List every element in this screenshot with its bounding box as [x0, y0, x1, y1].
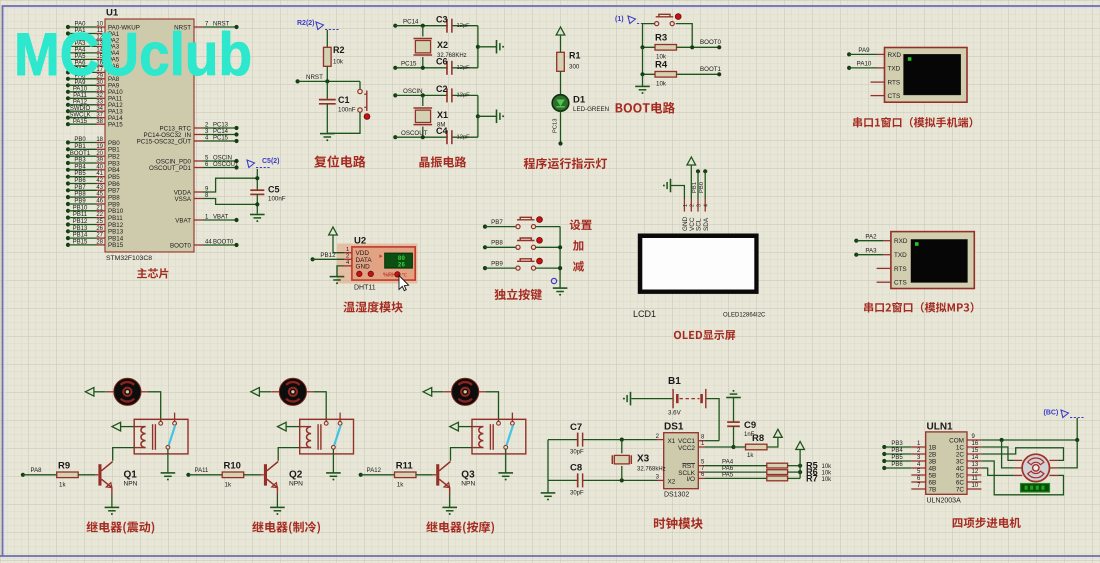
svg-text:NPN: NPN	[461, 481, 475, 488]
svg-text:C4: C4	[436, 126, 448, 136]
ground left of B1	[630, 392, 632, 406]
svg-text:PA11: PA11	[73, 93, 87, 99]
svg-text:2: 2	[346, 254, 349, 260]
wire coil to transistor collector	[278, 448, 300, 461]
svg-text:27: 27	[96, 233, 103, 239]
svg-text:PC15: PC15	[401, 61, 417, 68]
svg-text:BOOT0: BOOT0	[170, 242, 192, 249]
svg-text:PB4: PB4	[891, 448, 903, 454]
svg-text:TXD: TXD	[894, 252, 907, 259]
probe marker C5(2)	[247, 158, 280, 168]
wire PB1 to SCL	[692, 169, 700, 199]
label 串口1窗口（模拟手机端）	[853, 117, 972, 128]
motor for 继电器(震动)	[106, 378, 148, 405]
svg-text:C5(2): C5(2)	[262, 158, 280, 165]
U1 pin PA0-WKUP (10)	[66, 22, 140, 32]
RTS stub	[871, 81, 885, 83]
wire left vertical clock	[547, 440, 549, 493]
svg-text:PB7: PB7	[491, 219, 503, 226]
DS1302 I/O wire PA5	[698, 471, 767, 478]
svg-text:NPN: NPN	[124, 481, 138, 488]
svg-text:30pF: 30pF	[570, 450, 584, 456]
wire VCC1 to battery	[698, 435, 719, 441]
U1 pin PB6 (42)	[66, 178, 120, 188]
svg-text:26: 26	[96, 226, 103, 232]
svg-text:OSCOUT: OSCOUT	[213, 162, 239, 168]
wire 1C to motor left-top	[981, 447, 1014, 460]
resistor R11 1k	[395, 460, 437, 488]
U1 pin PA8 (29)	[66, 73, 120, 83]
U1 pin PA10 (31)	[66, 86, 123, 96]
svg-text:300: 300	[569, 64, 580, 71]
node PA8	[21, 468, 57, 477]
virtual terminal serial window 1	[885, 48, 968, 103]
wire probe to R2	[326, 30, 328, 47]
svg-text:40: 40	[96, 164, 103, 170]
svg-text:3C: 3C	[956, 458, 965, 465]
svg-text:7B: 7B	[929, 486, 937, 493]
resistor R10 1k	[222, 460, 264, 488]
svg-text:Q1: Q1	[124, 470, 138, 481]
power arrow left of motor	[251, 388, 271, 397]
label 设置	[570, 219, 592, 230]
stepper digital display	[1021, 484, 1050, 493]
svg-text:R7: R7	[806, 473, 818, 483]
svg-text:(1): (1)	[615, 16, 624, 23]
svg-text:D1: D1	[573, 95, 586, 106]
svg-text:46: 46	[96, 199, 103, 205]
U1 pin PB5 (41)	[66, 171, 120, 181]
node PA12	[359, 468, 395, 477]
svg-text:22: 22	[96, 212, 103, 218]
ground below relay	[326, 472, 341, 474]
U1 pin PA7 (17)	[66, 67, 120, 77]
U1 pin OSCIN_PD0 (5)	[156, 155, 239, 165]
chip U1 STM32F103C8 body	[105, 8, 194, 263]
transistor Q3 NPN	[436, 462, 475, 508]
chip U2 DHT11 body	[352, 236, 415, 292]
U1 pin VSSA (8) wire to C5	[174, 193, 257, 205]
resistor R8 1k	[746, 433, 778, 459]
svg-text:SDA: SDA	[703, 217, 710, 231]
U1 pin BOOT0 (44)	[170, 239, 239, 249]
svg-text:12: 12	[972, 469, 979, 475]
CTS stub	[871, 95, 885, 97]
U1 pin PA14 (37)	[66, 112, 123, 122]
ULN1 pin 3B (3)	[882, 455, 936, 466]
label 继电器(震动)	[86, 521, 154, 534]
DS1302 RST wire PA4	[698, 459, 767, 466]
ground below C1	[320, 133, 335, 135]
power arrow for OLED VCC	[687, 157, 696, 199]
svg-text:RTS: RTS	[888, 80, 901, 87]
svg-text:7C: 7C	[956, 486, 965, 493]
ULN1 pin 2C (15)	[956, 448, 982, 458]
motor for 继电器(制冷)	[272, 378, 314, 405]
svg-text:PC14: PC14	[213, 129, 229, 135]
chip ULN1 ULN2003A body	[926, 422, 967, 505]
U1 pin NRST (7)	[174, 21, 238, 31]
key button PB8	[483, 237, 560, 249]
resistor R4 10k	[640, 47, 721, 87]
display LCD1 OLED12864I2C	[633, 234, 766, 320]
svg-text:CTS: CTS	[888, 93, 901, 100]
svg-text:C2: C2	[436, 84, 448, 94]
U1 pin PB10 (21)	[66, 205, 124, 215]
svg-text:R2(2): R2(2)	[297, 20, 315, 27]
wire PA2 to RXD	[854, 233, 891, 242]
resistor R2 10k	[324, 45, 345, 66]
wire relay contact to ground	[167, 449, 169, 472]
U1 pin PB2 (20)	[66, 151, 120, 161]
svg-text:1: 1	[683, 204, 689, 207]
capacitor C2 12pF	[436, 84, 470, 102]
boot button	[643, 14, 693, 48]
capacitor C7 30pF	[548, 422, 664, 456]
svg-text:I/O: I/O	[686, 476, 695, 483]
svg-text:PB10: PB10	[73, 205, 88, 211]
svg-text:10k: 10k	[822, 470, 833, 476]
svg-text:44: 44	[205, 239, 212, 245]
U2 pin 1 VDD stub	[344, 247, 352, 253]
U1 pin PB8 (45)	[66, 192, 120, 202]
ground right of X2	[496, 40, 498, 54]
svg-text:34: 34	[96, 106, 103, 112]
svg-text:%RH: %RH	[383, 273, 396, 279]
svg-text:R9: R9	[58, 460, 70, 471]
U1 pin PB11 (22)	[66, 212, 123, 222]
capacitor C3 12pF	[436, 15, 470, 33]
svg-text:Q3: Q3	[461, 470, 475, 481]
U1 pin PB15 (28)	[66, 240, 124, 250]
svg-text:45: 45	[96, 192, 103, 198]
svg-text:X1: X1	[437, 110, 448, 120]
transistor Q1 NPN	[98, 462, 137, 508]
svg-text:6C: 6C	[956, 479, 965, 486]
battery B1 3.6V	[632, 376, 720, 441]
keys common wire	[558, 227, 562, 288]
svg-text:PB8: PB8	[74, 192, 86, 198]
svg-text:PA15: PA15	[108, 122, 123, 129]
svg-text:PA3: PA3	[865, 247, 877, 254]
U1 pin PA3 (13)	[66, 41, 120, 51]
mouse cursor	[399, 276, 409, 291]
svg-text:PB12: PB12	[73, 219, 88, 225]
key button PB7	[483, 217, 560, 229]
U1 pin PB7 (43)	[66, 185, 120, 195]
svg-text:R3: R3	[655, 33, 667, 44]
svg-text:DS1: DS1	[664, 422, 684, 433]
svg-text:10k: 10k	[822, 477, 833, 483]
U1 pin PA5 (15)	[66, 54, 120, 64]
svg-text:OLED12864I2C: OLED12864I2C	[723, 313, 766, 319]
svg-text:1k: 1k	[59, 482, 66, 489]
selection highlight DHT11	[337, 244, 418, 284]
svg-text:PB6: PB6	[891, 462, 903, 468]
svg-text:GND: GND	[356, 263, 371, 270]
svg-text:25: 25	[96, 219, 103, 225]
svg-text:PA2: PA2	[865, 233, 877, 240]
U1 pin PA11 (32)	[66, 93, 123, 103]
node PA11	[186, 468, 222, 477]
svg-text:20: 20	[96, 151, 103, 157]
svg-text:VCC2: VCC2	[678, 445, 695, 452]
svg-text:BOOT1: BOOT1	[700, 66, 722, 73]
svg-text:R10: R10	[224, 460, 241, 471]
svg-text:1C: 1C	[956, 444, 965, 451]
ground below relay	[498, 472, 513, 474]
svg-text:30pF: 30pF	[570, 490, 584, 496]
svg-text:12pF: 12pF	[457, 93, 471, 99]
wire right vertical	[476, 26, 497, 68]
svg-text:OSCOUT_PD1: OSCOUT_PD1	[149, 165, 192, 172]
RTS stub 2	[877, 267, 891, 269]
label 继电器(按摩)	[426, 521, 494, 534]
svg-text:LCD1: LCD1	[633, 309, 656, 319]
svg-text:RTS: RTS	[894, 266, 907, 273]
svg-text:4: 4	[704, 204, 710, 207]
U1 pin PC13_RTC (2)	[159, 122, 238, 132]
svg-text:BOOT0: BOOT0	[700, 39, 722, 46]
svg-text:DS1302: DS1302	[664, 492, 689, 499]
svg-text:PB0: PB0	[699, 182, 705, 193]
ULN1 pin 7B (7)	[911, 483, 936, 493]
svg-text:1B: 1B	[929, 444, 937, 451]
wire 3C to motor right-bottom	[981, 461, 1063, 495]
ULN1 pin 5B (5)	[911, 469, 936, 479]
svg-text:32.768kHz: 32.768kHz	[637, 467, 666, 473]
capacitor C6 12pF	[436, 57, 470, 75]
transistor Q2 NPN	[264, 462, 303, 508]
svg-text:SWCLK: SWCLK	[69, 112, 90, 118]
svg-text:5B: 5B	[929, 472, 937, 479]
svg-text:19: 19	[96, 144, 103, 150]
virtual terminal serial window 2	[891, 232, 974, 289]
crystal X1 8M	[414, 95, 449, 137]
svg-text:10k: 10k	[333, 59, 344, 66]
U1 pin PC15-OSC32_OUT (4)	[137, 135, 239, 145]
svg-text:BOOT0: BOOT0	[213, 239, 234, 245]
resistor R6 10k	[767, 467, 832, 477]
U1 pin PB9 (46)	[66, 199, 120, 209]
svg-text:C3: C3	[436, 15, 448, 25]
svg-text:PB3: PB3	[891, 441, 903, 447]
svg-text:PB12: PB12	[320, 252, 336, 259]
ground below keys	[553, 287, 568, 289]
svg-text:C7: C7	[570, 422, 582, 433]
ULN1 pin 4C (13)	[956, 462, 982, 472]
U1 pin PC14-OSC32_IN (3)	[144, 129, 239, 139]
U1 pin PA15 (38)	[66, 119, 123, 129]
svg-text:3B: 3B	[929, 458, 937, 465]
reset button	[327, 81, 370, 133]
ULN1 pin 4B (4)	[882, 462, 936, 473]
DHT11 LCD screen	[380, 253, 413, 269]
svg-text:RXD: RXD	[894, 238, 908, 245]
label 加	[573, 240, 583, 251]
capacitor C4 12pF	[436, 126, 470, 144]
svg-text:PB9: PB9	[74, 199, 86, 205]
svg-text:MCUclub: MCUclub	[14, 21, 252, 88]
svg-text:4B: 4B	[929, 465, 937, 472]
ground below Q1	[105, 506, 120, 508]
svg-text:41: 41	[96, 171, 103, 177]
svg-text:R1: R1	[569, 51, 581, 61]
ULN1 pin COM (9)	[949, 434, 981, 444]
wire relay contact to ground	[505, 449, 507, 472]
svg-text:2C: 2C	[956, 451, 965, 458]
power arrow relay coil	[112, 422, 134, 431]
svg-text:OSCIN: OSCIN	[213, 155, 232, 161]
resistor R1 300	[557, 51, 581, 72]
power arrow for U2	[329, 227, 344, 253]
svg-text:26: 26	[398, 262, 406, 269]
svg-text:5C: 5C	[956, 472, 965, 479]
label 复位电路	[314, 155, 366, 167]
svg-text:SWDIO: SWDIO	[70, 106, 91, 112]
relay box 继电器(按摩)	[472, 413, 526, 454]
svg-text:STM32F103C8: STM32F103C8	[106, 255, 152, 262]
svg-text:VBAT: VBAT	[213, 214, 229, 220]
ground below U2	[330, 276, 345, 278]
label 减	[573, 261, 584, 272]
svg-text:PA12: PA12	[367, 468, 382, 474]
U1 pin PB4 (40)	[66, 164, 120, 174]
svg-text:(BC): (BC)	[1044, 410, 1059, 417]
motor for 继电器(按摩)	[444, 378, 486, 405]
COM wire	[981, 438, 1079, 442]
svg-text:PC15: PC15	[213, 135, 229, 141]
wire coil to transistor collector	[113, 448, 135, 461]
svg-text:12pF: 12pF	[457, 134, 471, 140]
label 主芯片	[137, 268, 168, 278]
CTS stub 2	[877, 281, 891, 283]
U1 pin PB14 (27)	[66, 233, 124, 243]
svg-text:42: 42	[96, 178, 103, 184]
power arrow for D1	[556, 27, 565, 52]
capacitor C9 1nF	[727, 420, 756, 447]
ULN1 pin 6B (6)	[911, 476, 936, 486]
svg-text:LED-GREEN: LED-GREEN	[573, 106, 609, 113]
svg-text:PC13: PC13	[213, 122, 229, 128]
ground below R4	[635, 74, 650, 94]
svg-text:39: 39	[96, 158, 103, 164]
svg-text:PB8: PB8	[491, 240, 503, 247]
U1 pin PA12 (33)	[66, 99, 123, 109]
svg-text:PB11: PB11	[73, 212, 88, 218]
capacitor C1 100nF	[319, 81, 356, 133]
svg-text:2: 2	[690, 204, 696, 207]
svg-text:10k: 10k	[656, 81, 667, 88]
U1 pin PB1 (19)	[66, 144, 120, 154]
label 串口2窗口（模拟MP3）	[864, 302, 973, 313]
svg-text:3: 3	[696, 204, 702, 207]
wire right vertical	[476, 95, 497, 137]
svg-text:PC15-OSC32_OUT: PC15-OSC32_OUT	[137, 138, 192, 145]
svg-text:PC14: PC14	[403, 19, 419, 26]
svg-text:PB9: PB9	[491, 261, 503, 268]
svg-text:C6: C6	[436, 57, 448, 67]
svg-text:NRST: NRST	[306, 74, 323, 81]
power arrow left of motor	[85, 388, 106, 397]
relay box 继电器(制冷)	[300, 413, 354, 454]
svg-text:PB7: PB7	[74, 185, 86, 191]
svg-text:37: 37	[96, 112, 103, 118]
svg-text:PA5: PA5	[722, 471, 734, 478]
svg-text:32: 32	[96, 93, 103, 99]
svg-text:PB1: PB1	[74, 144, 86, 150]
U1 pin PA13 (34)	[66, 106, 123, 116]
svg-text:B1: B1	[668, 376, 681, 387]
svg-text:NPN: NPN	[289, 481, 303, 488]
U2 pin 2 DATA wire PB12	[311, 252, 352, 261]
svg-text:12pF: 12pF	[457, 65, 471, 71]
node NRST	[296, 74, 361, 84]
svg-text:X2: X2	[668, 479, 676, 486]
label 继电器(制冷)	[252, 521, 320, 534]
ULN1 pin 7C (10)	[956, 483, 982, 493]
svg-text:C9: C9	[744, 420, 756, 431]
DS1302 SCLK wire PA6	[698, 465, 767, 472]
svg-text:C1: C1	[338, 95, 350, 105]
svg-text:3.6V: 3.6V	[668, 410, 682, 417]
power arrow pull-ups	[796, 442, 805, 450]
crystal X3 32.768kHz	[612, 440, 665, 481]
ground right of X1	[496, 110, 498, 124]
svg-text:10k: 10k	[822, 464, 833, 470]
resistor R3 10k	[640, 33, 721, 61]
U1 pin VBAT (1)	[175, 214, 238, 224]
svg-text:38: 38	[96, 119, 103, 125]
wire 4C to motor left-bottom	[981, 468, 1014, 475]
svg-text:10: 10	[972, 483, 979, 489]
wire coil to transistor collector	[451, 448, 473, 461]
svg-text:CTS: CTS	[894, 280, 907, 287]
svg-text:PA9: PA9	[858, 47, 870, 54]
LED D1 LED-GREEN	[552, 95, 609, 114]
U1 pin PA6 (16)	[66, 61, 120, 71]
ground above C9	[726, 390, 741, 422]
relay box 继电器(震动)	[134, 413, 188, 454]
wire D1 to PC13 node	[553, 111, 563, 145]
wire PA3 to TXD	[854, 247, 891, 256]
svg-text:28: 28	[96, 240, 103, 246]
svg-text:PB3: PB3	[74, 158, 86, 164]
U1 pin VDDA (9) wire to C5	[174, 178, 258, 196]
svg-text:BOOT1: BOOT1	[70, 151, 91, 157]
wire motor to relay	[313, 392, 326, 421]
svg-text:100nF: 100nF	[338, 107, 356, 114]
U1 pin PB3 (39)	[66, 158, 120, 168]
power arrow relay coil	[278, 422, 300, 431]
wire motor to relay	[148, 392, 161, 421]
resistor R7 10k	[767, 473, 832, 483]
wire COM to motor left-middle	[1002, 440, 1014, 468]
label OLED显示屏	[674, 330, 735, 340]
U1 pin OSCOUT_PD1 (6)	[149, 162, 239, 172]
svg-text:U2: U2	[354, 236, 366, 247]
OLED pin stubs	[682, 199, 710, 231]
pull-up common wire	[799, 450, 801, 479]
svg-text:R11: R11	[396, 460, 414, 471]
U1 pin PB0 (18)	[66, 137, 120, 147]
U1 pin PA1 (11)	[66, 28, 120, 38]
power arrow left of motor	[423, 388, 444, 397]
svg-text:PB15: PB15	[73, 240, 88, 246]
svg-text:C8: C8	[570, 463, 582, 474]
key button PB9	[483, 258, 560, 270]
svg-text:1k: 1k	[747, 453, 754, 459]
